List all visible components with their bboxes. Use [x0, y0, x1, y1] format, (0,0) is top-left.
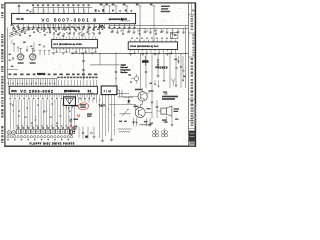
- speaker LS1: [161, 106, 172, 116]
- pin number labels U1 bottom: [13, 27, 136, 29]
- IC U2: [52, 39, 98, 48]
- pin stubs U3 top: [131, 40, 176, 42]
- label 2-( top: [163, 91, 168, 94]
- wire Q2 collector to output: [145, 100, 153, 118]
- label TNT: [99, 104, 106, 107]
- IC U5 driver: [101, 86, 117, 95]
- capacitor and ground row below data bus: [111, 28, 185, 34]
- IC U1 VC5007-0001: [12, 13, 136, 23]
- wire column x100: [99, 53, 101, 65]
- wire data bus right pair: [109, 26, 188, 29]
- test point arrow top left: [18, 4, 21, 13]
- transistor Q3 small: [128, 74, 138, 84]
- svg-text:UC11: UC11: [11, 91, 17, 93]
- pin stubs U4 top left: [8, 79, 57, 87]
- misc right mid parts: [175, 56, 186, 81]
- wire verticals U3 to amplifier: [141, 53, 178, 99]
- net label DATA: [99, 25, 104, 28]
- transistor Q1: [138, 88, 150, 101]
- pin stubs U2 bottom with grounds: [52, 48, 97, 54]
- wire columns center low: [79, 97, 97, 103]
- pin stubs U1 bottom: [14, 24, 135, 27]
- label speaker impedance: [174, 108, 179, 112]
- diode D1: [127, 97, 130, 103]
- red annotation ellipse: [78, 103, 89, 111]
- misc parts left column mid: [7, 54, 18, 70]
- wire diagonal bus top left: [9, 27, 34, 38]
- marks below speaker: [165, 116, 178, 126]
- label 2-( bottom: [162, 119, 167, 122]
- inductor L1: [140, 124, 152, 125]
- capacitor trio left center: [39, 51, 50, 56]
- relay K1 box top right: [170, 32, 178, 38]
- capacitor cluster right of Q2: [146, 118, 152, 127]
- IC U4 VC2963-0002: [9, 86, 97, 94]
- svg-text:VC 5007-0001 8: VC 5007-0001 8: [42, 17, 98, 22]
- IC U3: [128, 42, 177, 50]
- wire column x83: [82, 53, 85, 80]
- pin stubs U4 bottom: [10, 94, 96, 97]
- polarized connector circles left: [7, 131, 16, 135]
- wire bus segment y65: [90, 64, 120, 66]
- tiny marks above U3: [131, 38, 173, 39]
- wire harness to connector row: [10, 100, 75, 130]
- transistor Q2: [135, 101, 145, 118]
- rotary switch S2: [29, 48, 37, 64]
- label 24 matrix: [162, 96, 178, 100]
- title block right margin: [188, 3, 195, 145]
- pin stubs U4 top center: [57, 77, 97, 87]
- svg-text:PHONES: PHONES: [156, 68, 169, 70]
- wire main horizontal bus y53: [71, 53, 188, 54]
- wire stubs top right with labels: [100, 4, 129, 14]
- resistor R33 bottom: [118, 128, 132, 131]
- red annotation handwriting 4.5: [77, 114, 80, 118]
- wire columns bottom middle: [99, 95, 116, 142]
- capacitor marks above Q1: [150, 80, 160, 87]
- resistor capacitor cluster center y30: [63, 24, 102, 36]
- title block sheet number D4: [192, 9, 196, 13]
- pin stubs U3 bottom with grounds: [129, 49, 176, 55]
- component column inside paren: [69, 118, 77, 134]
- capacitor cluster below center comb: [37, 28, 57, 32]
- wire TNT to Q2 base: [109, 104, 136, 110]
- plus marks row y32: [39, 32, 101, 34]
- pin stubs top bus to U1: [33, 7, 89, 13]
- svg-text:(BCDEFGH-4): (BCDEFGH-4): [64, 90, 80, 93]
- wire right rail x185: [180, 26, 186, 88]
- misc marks band y30-37 left: [11, 31, 64, 37]
- top bus pin number labels: [32, 4, 90, 6]
- wire long vertical x154 top to U3: [150, 4, 156, 42]
- caption floppy disc drive points: [30, 144, 75, 146]
- node marks left of bus: [27, 10, 32, 13]
- wire column x116: [115, 53, 117, 86]
- plus marks row right y31: [112, 30, 164, 32]
- label Q1 2N262: [135, 89, 154, 92]
- label text beside red mark: [73, 113, 92, 120]
- label Q2: [134, 106, 151, 110]
- wire left rail vertical: [6, 28, 8, 79]
- capacitor ladder x158: [157, 60, 159, 68]
- pin stubs U2 top: [54, 37, 96, 39]
- tiny marks between U2 and U1: [53, 33, 95, 37]
- motor symbol M1: [152, 128, 158, 137]
- wire pointer to red annotation: [71, 103, 78, 108]
- resistor R20 right of U5: [117, 90, 133, 97]
- capacitor column x157: [156, 100, 161, 118]
- svg-text:FLOPPY DISC DRIVE POINTS: FLOPPY DISC DRIVE POINTS: [30, 144, 75, 146]
- svg-text:Modem: Modem: [121, 72, 128, 74]
- label row under amplifier: [119, 121, 153, 124]
- diode D2 cluster under Q2: [132, 118, 137, 126]
- rotary switch S1: [17, 48, 25, 64]
- wire stub comb center below U1: [36, 24, 63, 28]
- svg-text:VC 2963-0002: VC 2963-0002: [20, 90, 54, 94]
- wire top address bus: [33, 6, 92, 8]
- label PHONES: [156, 68, 169, 70]
- pin label row under U1 second: [14, 29, 103, 30]
- connector J1 row: [16, 127, 75, 133]
- svg-text:A 5 C: A 5 C: [121, 18, 127, 21]
- net label row y74: [9, 73, 98, 75]
- harness mid tie labels: [12, 105, 71, 124]
- test point circle row: [7, 136, 73, 141]
- svg-text:7 I M: 7 I M: [103, 90, 111, 94]
- red annotation paren: [69, 124, 71, 135]
- V junction mark right: [172, 79, 176, 86]
- pin labels U4 bottom: [10, 98, 95, 99]
- label block modem: [121, 63, 131, 74]
- label apple sound chip: [161, 6, 171, 13]
- resistor R34 bottom: [119, 131, 130, 134]
- resistor R31: [118, 96, 138, 99]
- wire horizontal above U4: [7, 78, 57, 80]
- misc parts right of connector row: [79, 127, 96, 140]
- node labels above U1 right section: [95, 9, 133, 12]
- left margin vertical label text: [1, 4, 3, 143]
- resistor R30: [118, 92, 130, 95]
- motor symbol M2: [161, 128, 167, 137]
- ferrite bead black blob: [142, 56, 149, 66]
- resistor R32 potentiometer: [120, 109, 131, 117]
- label row above connector boxes second: [17, 125, 77, 126]
- misc parts top left: [11, 24, 23, 32]
- wire long vertical x140 top to U3: [136, 4, 142, 42]
- buzzer BZ1: [64, 97, 76, 109]
- misc parts left mid y40-52: [12, 40, 45, 52]
